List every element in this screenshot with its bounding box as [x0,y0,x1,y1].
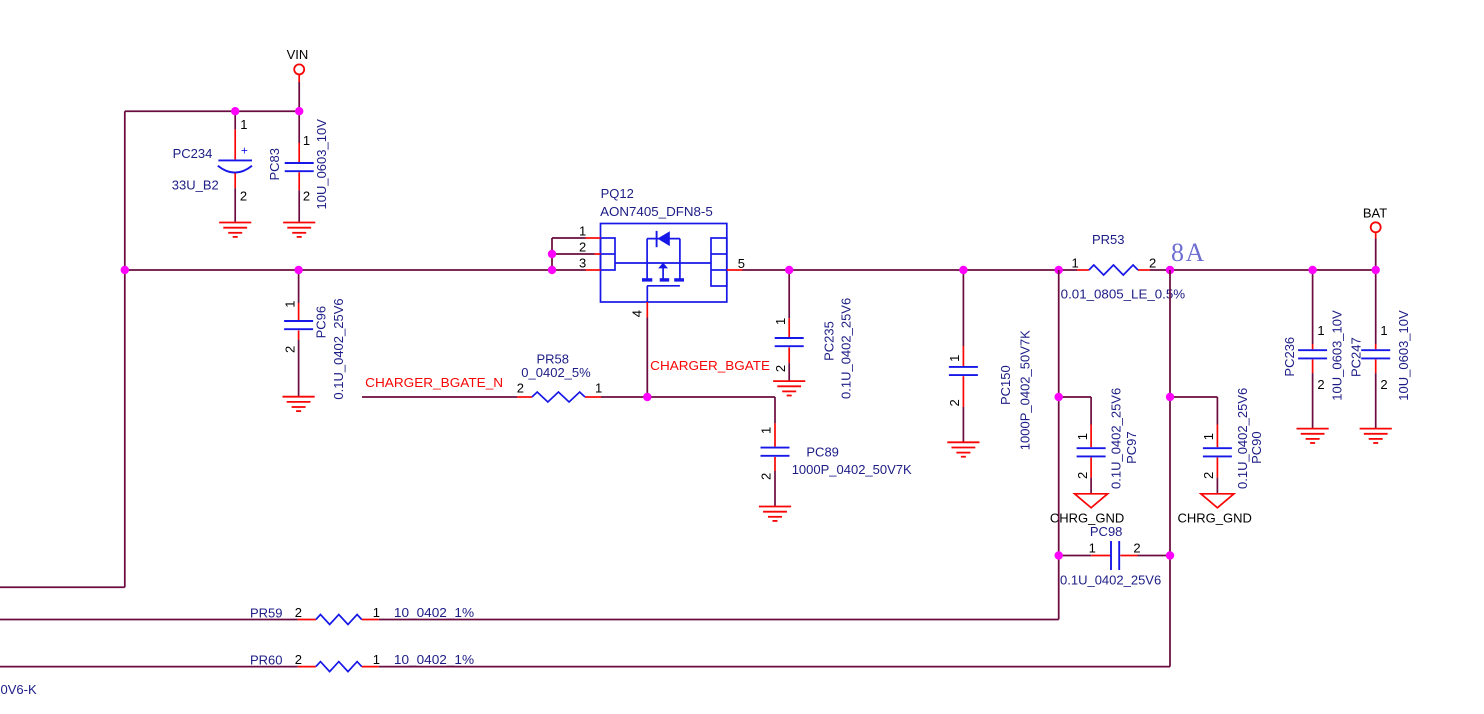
svg-text:10_0402_1%: 10_0402_1% [394,652,475,667]
wire [1169,270,1171,667]
node rail / PC98 left junction [1055,551,1063,559]
svg-text:PC98: PC98 [1090,524,1123,539]
svg-text:1: 1 [595,381,602,396]
svg-text:0V6-K: 0V6-K [1,682,37,697]
svg-text:CHRG_GND: CHRG_GND [1178,511,1252,526]
pin 3 of PQ12 [579,255,601,270]
ground CHRG_GND [1201,494,1234,508]
capacitor PC235 [788,270,790,381]
svg-text:0.1U_0402_25V6: 0.1U_0402_25V6 [331,298,346,399]
svg-text:0.1U_0402_25V6: 0.1U_0402_25V6 [1235,388,1250,489]
capacitor PC89 [774,397,776,507]
svg-text:2: 2 [579,240,586,255]
wire [552,253,595,255]
svg-text:PC90: PC90 [1249,431,1264,464]
svg-text:PR59: PR59 [250,605,283,620]
capacitor PC96 [298,270,300,397]
wire [1170,396,1217,398]
pin 4 of PQ12 [630,302,648,318]
ground [759,507,791,521]
svg-text:1: 1 [947,355,962,362]
svg-text:1: 1 [758,427,773,434]
svg-text:0.1U_0402_25V6: 0.1U_0402_25V6 [1109,388,1124,489]
node bus / PC235 junction [785,266,793,274]
capacitor PC247 [1376,270,1388,429]
transistor PQ12 [600,186,727,302]
wire [0,586,125,588]
capacitor PC236 [1313,270,1325,429]
power symbol BAT [1363,206,1387,239]
ground [283,397,315,411]
svg-text:33U_B2: 33U_B2 [172,177,219,192]
svg-text:1: 1 [1317,323,1324,338]
pin 2 of PQ12 [579,240,601,255]
svg-text:1: 1 [303,133,310,148]
svg-text:1000P_0402_50V7K: 1000P_0402_50V7K [792,462,912,477]
svg-text:2: 2 [947,399,962,406]
svg-text:PC89: PC89 [806,445,839,460]
wire [1150,269,1376,271]
svg-text:AON7405_DFN8-5: AON7405_DFN8-5 [600,204,713,219]
wire [124,111,126,587]
wire [551,238,553,270]
node bus / PC236 junction [1308,266,1316,274]
svg-text:2: 2 [303,189,310,204]
svg-text:2: 2 [773,365,788,372]
wire [0,666,298,668]
resistor PR60 [298,666,379,668]
svg-text:8A: 8A [1171,238,1206,267]
wire [1375,239,1377,271]
svg-text:2: 2 [1075,472,1090,479]
ground [283,223,315,237]
wire [646,318,648,398]
svg-text:1: 1 [240,117,247,132]
svg-text:3: 3 [579,255,586,270]
wire [362,396,517,398]
svg-text:1: 1 [1075,433,1090,440]
node bus / PR53 left junction [1055,266,1063,274]
node rail / PC90 junction [1166,393,1174,401]
wire [125,269,586,271]
svg-text:2: 2 [295,652,302,667]
node bus / PR53 right junction [1166,266,1174,274]
resistor PR58 [517,396,601,398]
svg-text:+: + [241,144,248,158]
svg-text:PC234: PC234 [173,146,213,161]
wire [552,237,586,239]
capacitor PC234 [172,111,252,222]
svg-text:PC96: PC96 [313,306,328,339]
svg-text:10_0402_1%: 10_0402_1% [394,605,475,620]
svg-text:1: 1 [1072,255,1079,270]
svg-text:1: 1 [1201,433,1216,440]
svg-text:PC83: PC83 [267,148,282,181]
svg-text:CHARGER_BGATE_N: CHARGER_BGATE_N [365,375,503,390]
capacitor PC90 [1216,397,1218,494]
capacitor PC98 [1059,540,1170,570]
svg-text:0.1U_0402_25V6: 0.1U_0402_25V6 [838,298,853,399]
svg-text:CHARGER_BGATE: CHARGER_BGATE [650,358,770,373]
capacitor PC83 [299,111,310,222]
svg-text:VIN: VIN [287,47,309,62]
capacitor PC150 [962,270,964,442]
wire [379,619,1059,621]
svg-text:PC235: PC235 [822,321,837,361]
node top rail / VIN junction [295,107,303,115]
svg-text:PR58: PR58 [537,351,570,366]
svg-text:2: 2 [1133,540,1140,555]
svg-text:1: 1 [579,224,586,239]
node rail / PC97 junction [1055,393,1063,401]
node rail / PC98 right junction [1166,551,1174,559]
wire [379,666,1170,668]
resistor PR53 [1077,269,1150,271]
ground [773,381,805,395]
node pin3 / bus junction [548,266,556,274]
svg-text:2: 2 [282,346,297,353]
svg-text:5: 5 [738,256,745,271]
ground [1297,429,1329,443]
svg-text:10U_0603_10V: 10U_0603_10V [1330,310,1345,401]
ground [947,442,979,456]
pin 5 of PQ12 [727,256,745,271]
node bus / PC150 junction [959,266,967,274]
svg-text:PR60: PR60 [250,652,283,667]
power symbol VIN [287,47,309,82]
svg-text:4: 4 [630,310,645,317]
pin 1 of PQ12 [579,224,601,239]
node CHARGER_BGATE junction [643,393,651,401]
node left rail / bus junction [121,266,129,274]
resistor PR59 [298,619,379,621]
wire [125,110,299,112]
svg-text:1: 1 [373,652,380,667]
svg-text:PC247: PC247 [1349,337,1364,377]
node pin2 junction [548,250,556,258]
svg-text:2: 2 [1201,472,1216,479]
ground [219,223,251,237]
svg-text:1000P_0402_50V7K: 1000P_0402_50V7K [1018,330,1033,450]
svg-text:2: 2 [517,381,524,396]
wire [298,82,300,111]
svg-text:10U_0603_10V: 10U_0603_10V [1396,310,1411,401]
svg-text:2: 2 [295,605,302,620]
svg-text:0.1U_0402_25V6: 0.1U_0402_25V6 [1060,573,1161,588]
svg-text:1: 1 [773,318,788,325]
svg-text:2: 2 [1149,255,1156,270]
svg-text:BAT: BAT [1363,206,1387,221]
node bus / BAT junction [1372,266,1380,274]
node top rail / PC234 junction [231,107,239,115]
svg-text:0_0402_5%: 0_0402_5% [521,365,591,380]
svg-text:2: 2 [758,473,773,480]
svg-text:0.01_0805_LE_0.5%: 0.01_0805_LE_0.5% [1061,287,1186,302]
svg-text:PQ12: PQ12 [601,186,634,201]
svg-text:10U_0603_10V: 10U_0603_10V [314,119,329,210]
svg-text:1: 1 [373,605,380,620]
svg-text:2: 2 [240,189,247,204]
svg-text:2: 2 [1380,377,1387,392]
node bus / PC96 junction [294,266,302,274]
wire [601,396,775,398]
svg-text:1: 1 [1089,540,1096,555]
ground CHRG_GND [1075,494,1108,508]
wire [743,269,1078,271]
wire [1058,270,1060,620]
ground [1360,429,1392,443]
svg-text:1: 1 [282,300,297,307]
svg-text:PC236: PC236 [1282,337,1297,377]
svg-text:2: 2 [1317,377,1324,392]
svg-text:PC150: PC150 [998,365,1013,405]
svg-text:PR53: PR53 [1092,232,1125,247]
wire [1059,396,1091,398]
capacitor PC97 [1090,397,1092,494]
wire [0,619,298,621]
svg-text:PC97: PC97 [1124,431,1139,464]
svg-text:1: 1 [1380,323,1387,338]
